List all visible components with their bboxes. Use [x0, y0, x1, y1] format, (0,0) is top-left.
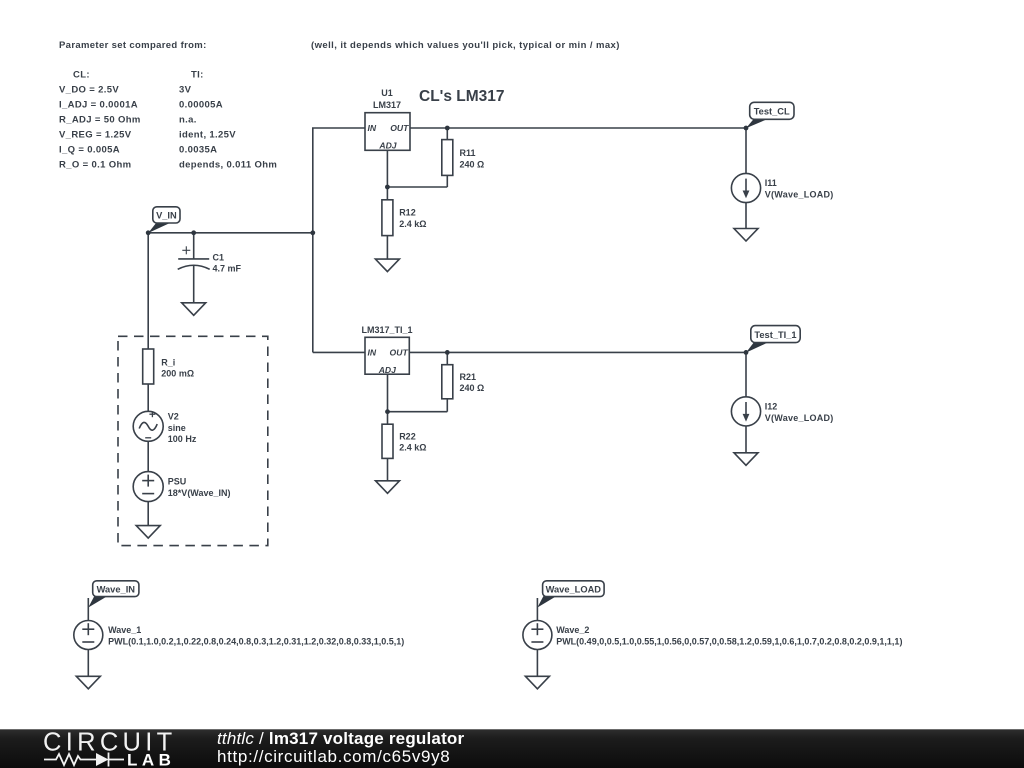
ground below Wave_2	[525, 676, 549, 689]
junction dot C1 tap	[191, 230, 196, 235]
node Wave_LOAD flag	[537, 581, 604, 621]
svg-text:CL:: CL:	[73, 70, 90, 81]
voltage source V2 (sine)	[133, 411, 163, 441]
svg-text:V_REG = 1.25V: V_REG = 1.25V	[59, 130, 132, 141]
voltage source PSU (behavioral)	[133, 472, 163, 502]
svg-text:CL's LM317: CL's LM317	[419, 88, 505, 105]
junction dot V_IN node	[146, 230, 151, 235]
svg-text:I11: I11	[765, 178, 777, 188]
wire: LM317_TI_1 OUT to Test_TI_1 node	[409, 351, 746, 353]
svg-text:I_ADJ = 0.0001A: I_ADJ = 0.0001A	[59, 100, 138, 111]
svg-text:ADJ: ADJ	[378, 140, 396, 150]
svg-text:LM317_TI_1: LM317_TI_1	[361, 325, 412, 335]
wire: U1 IN pin to left vertical	[313, 128, 366, 352]
logo resistor-diode glyph	[44, 753, 124, 767]
svg-text:4.7 mF: 4.7 mF	[213, 264, 242, 274]
svg-text:IN: IN	[368, 123, 377, 133]
svg-text:R11: R11	[460, 148, 476, 158]
junction dot R11 top	[445, 126, 450, 131]
wire: LM317_TI_1 IN to vertical bus	[313, 351, 365, 353]
svg-text:18*V(Wave_IN): 18*V(Wave_IN)	[168, 488, 231, 498]
svg-text:Wave_1: Wave_1	[108, 625, 141, 635]
svg-text:C1: C1	[213, 252, 225, 262]
junction dot TI ADJ net	[385, 409, 390, 414]
node Wave_IN flag	[88, 581, 139, 621]
junction dot Test_CL node	[744, 126, 749, 131]
svg-text:ident, 1.25V: ident, 1.25V	[179, 130, 236, 141]
svg-text:LAB: LAB	[127, 751, 175, 768]
svg-text:3V: 3V	[179, 85, 192, 96]
resistor R12	[382, 200, 393, 259]
svg-text:240 Ω: 240 Ω	[460, 383, 485, 393]
svg-text:Wave_IN: Wave_IN	[97, 585, 136, 595]
svg-text:LM317: LM317	[373, 100, 401, 110]
svg-text:PWL(0.1,1.0,0.2,1,0.22,0.8,0.2: PWL(0.1,1.0,0.2,1,0.22,0.8,0.24,0.8,0.3,…	[108, 636, 404, 646]
dashed enclosure box	[118, 336, 268, 545]
svg-text:0.00005A: 0.00005A	[179, 100, 223, 111]
wire: U1 ADJ pin down	[386, 151, 388, 200]
svg-text:R_ADJ = 50 Ohm: R_ADJ = 50 Ohm	[59, 115, 141, 126]
resistor R11	[442, 128, 453, 187]
ground below PSU	[136, 526, 160, 539]
wire: LM317_TI_1 ADJ pin down	[387, 374, 389, 424]
current source I12	[731, 397, 760, 426]
svg-text:Test_CL: Test_CL	[754, 107, 790, 117]
svg-text:U1: U1	[381, 88, 393, 98]
wire: Wave_1 to ground	[87, 650, 89, 677]
svg-text:sine: sine	[168, 423, 186, 433]
junction dot U1 ADJ net	[385, 185, 390, 190]
ground below Wave_1	[76, 676, 100, 689]
svg-text:R22: R22	[399, 431, 416, 441]
voltage source Wave_2	[523, 621, 552, 650]
svg-text:n.a.: n.a.	[179, 115, 197, 126]
resistor R21	[442, 352, 453, 411]
svg-text:OUT: OUT	[390, 348, 409, 358]
svg-text:V_DO = 2.5V: V_DO = 2.5V	[59, 85, 119, 96]
wire: Test_CL node to I11	[745, 128, 747, 173]
svg-text:http://circuitlab.com/c65v9y8: http://circuitlab.com/c65v9y8	[217, 747, 450, 766]
svg-text:OUT: OUT	[390, 123, 409, 133]
svg-text:TI:: TI:	[191, 70, 204, 81]
voltage source Wave_1	[74, 621, 103, 650]
wire: U1 OUT to Test_CL node	[411, 127, 747, 129]
op-amp LM317_TI_1 body	[365, 337, 409, 374]
ground below R22	[376, 481, 400, 494]
junction dot R21 top	[445, 350, 450, 355]
svg-text:Wave_LOAD: Wave_LOAD	[546, 585, 602, 595]
junction dot Test_TI_1 node	[744, 350, 749, 355]
wire: R21 bottom to TI ADJ net	[388, 411, 448, 413]
wire: V_IN node to vertical bus	[148, 232, 313, 234]
svg-text:V2: V2	[168, 412, 179, 422]
svg-text:R_i: R_i	[161, 357, 175, 367]
svg-text:Test_TI_1: Test_TI_1	[754, 330, 796, 340]
node V_IN flag	[148, 207, 180, 233]
wire: V_IN node down to R_i	[147, 233, 149, 349]
op-amp U1 LM317 body	[365, 113, 410, 151]
svg-text:200 mΩ: 200 mΩ	[161, 369, 194, 379]
resistor R_i	[143, 349, 154, 411]
svg-text:I12: I12	[765, 402, 778, 412]
svg-text:ADJ: ADJ	[378, 365, 396, 375]
wire: V2 to PSU	[147, 441, 149, 471]
current source I11	[731, 173, 760, 202]
svg-text:(well, it depends which values: (well, it depends which values you'll pi…	[311, 40, 620, 51]
svg-text:2.4 kΩ: 2.4 kΩ	[399, 443, 426, 453]
node Test_CL flag	[746, 102, 794, 128]
junction dot vertical bus	[310, 230, 315, 235]
ground below I11	[734, 229, 758, 242]
ground below C1	[182, 303, 206, 316]
svg-text:V(Wave_LOAD): V(Wave_LOAD)	[765, 189, 834, 199]
node Test_TI_1 flag	[746, 326, 800, 353]
wire: I12 to ground	[745, 426, 747, 453]
ground below I12	[734, 453, 758, 466]
svg-text:I_Q = 0.005A: I_Q = 0.005A	[59, 145, 120, 156]
svg-text:Parameter set compared from:: Parameter set compared from:	[59, 40, 207, 51]
svg-text:240 Ω: 240 Ω	[460, 160, 485, 170]
svg-text:R21: R21	[460, 372, 477, 382]
svg-text:PWL(0.49,0,0.5,1.0,0.55,1,0.56: PWL(0.49,0,0.5,1.0,0.55,1,0.56,0,0.57,0,…	[556, 636, 902, 646]
svg-text:V_IN: V_IN	[156, 211, 177, 221]
svg-text:tthtlc / lm317 voltage regulat: tthtlc / lm317 voltage regulator	[217, 729, 465, 748]
svg-text:IN: IN	[368, 348, 377, 358]
svg-text:0.0035A: 0.0035A	[179, 145, 217, 156]
wire: I11 to ground	[745, 203, 747, 229]
svg-text:2.4 kΩ: 2.4 kΩ	[399, 219, 426, 229]
svg-text:R_O = 0.1 Ohm: R_O = 0.1 Ohm	[59, 160, 131, 171]
footer bar background	[0, 729, 1024, 768]
svg-text:V(Wave_LOAD): V(Wave_LOAD)	[765, 413, 834, 423]
resistor R22	[382, 424, 393, 481]
wire: PSU to ground	[147, 502, 149, 526]
svg-text:Wave_2: Wave_2	[556, 625, 589, 635]
ground below R12	[375, 259, 399, 272]
wire: Wave_2 to ground	[536, 650, 538, 677]
svg-text:R12: R12	[399, 208, 416, 218]
wire: R11 bottom to ADJ net	[387, 186, 447, 188]
capacitor C1 (polarized)	[178, 233, 210, 303]
wire: Test_TI_1 node to I12	[745, 352, 747, 396]
svg-text:depends, 0.011 Ohm: depends, 0.011 Ohm	[179, 160, 277, 171]
svg-text:100 Hz: 100 Hz	[168, 434, 197, 444]
svg-text:PSU: PSU	[168, 477, 187, 487]
